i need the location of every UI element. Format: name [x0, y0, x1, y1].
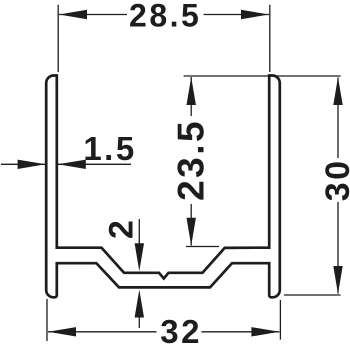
dim 2: lower up arrow — [135, 290, 144, 318]
dim 32: left arrow — [48, 327, 76, 336]
dim 28.5: extension line left — [57, 5, 59, 72]
dim 30: dimension line lower segment — [337, 202, 339, 294]
dim 30: up arrow — [333, 77, 342, 105]
dim 23.5: down arrow — [187, 218, 196, 246]
svg-text:30: 30 — [319, 158, 350, 201]
dim 1.5: dimension line left segment — [1, 163, 45, 165]
dim 32: dimension line right segment — [202, 331, 280, 333]
svg-text:1.5: 1.5 — [83, 130, 136, 167]
dim 23.5: up arrow — [187, 77, 196, 105]
svg-text:23.5: 23.5 — [171, 119, 212, 201]
svg-text:28.5: 28.5 — [129, 0, 201, 33]
dim 30: bottom extension line (wall bottom level) — [284, 294, 341, 296]
dim 1.5: right arrow (points left at wall inner face) — [58, 160, 86, 169]
dim 32: right extension line — [279, 300, 281, 340]
dim 23.5: bottom extension line (floor top level) — [186, 246, 219, 248]
dim 28.5: left arrow — [59, 10, 87, 19]
dim 2: upper down arrow — [135, 243, 144, 271]
dim 32: left extension line — [46, 299, 48, 341]
svg-text:2: 2 — [103, 218, 141, 239]
dim 1.5: left arrow (points right at wall outer face) — [18, 160, 46, 169]
dim 32: right arrow — [251, 327, 279, 336]
dim 2: lower arrow line (points up at floor bottom) — [138, 314, 140, 328]
dim 28.5: dimension line left segment — [59, 14, 127, 16]
dim 23.5: top extension line (wall top level) — [184, 75, 341, 77]
profile cross-section outline — [46, 76, 280, 298]
dim 23.5: dimension line upper segment — [190, 77, 192, 116]
dim 28.5: right arrow — [241, 10, 269, 19]
dim 28.5: extension line right — [269, 5, 271, 72]
svg-text:32: 32 — [160, 313, 202, 345]
dim 30: dimension line upper segment — [337, 78, 339, 159]
dim 32: dimension line left segment — [48, 331, 157, 333]
dim 23.5: dimension line lower segment — [190, 204, 192, 246]
dim 28.5: dimension line right segment — [204, 14, 270, 16]
dim 2: upper arrow line (points down at floor top) — [138, 219, 140, 246]
dim 1.5: dimension line right segment — [58, 163, 131, 165]
dim 30: down arrow — [333, 266, 342, 294]
